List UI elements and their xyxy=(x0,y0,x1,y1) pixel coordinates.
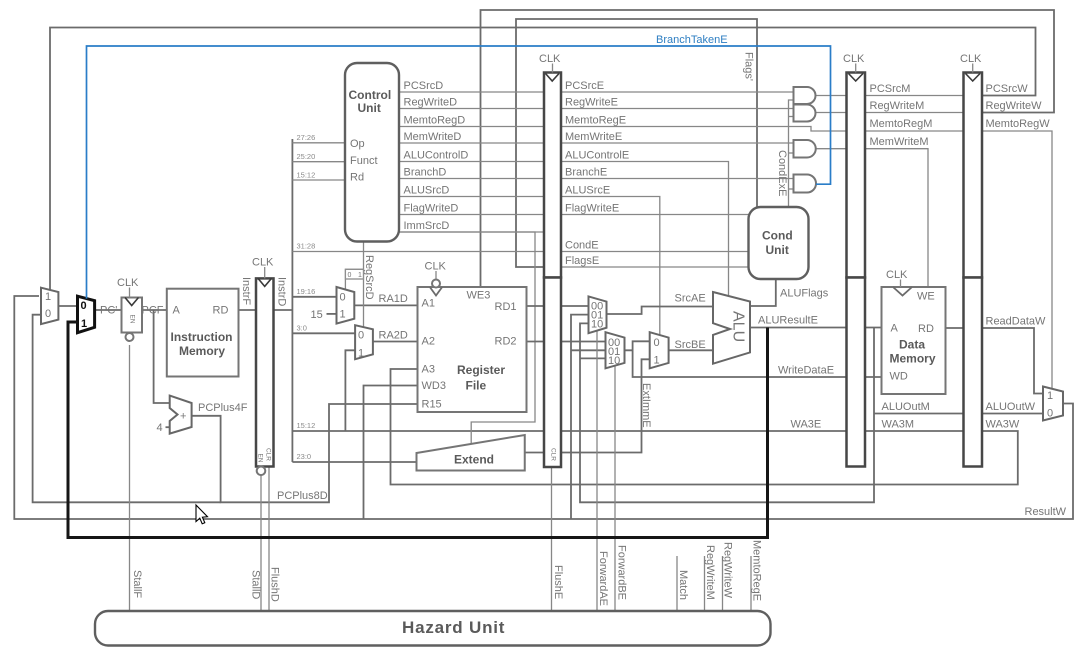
wire tap 15:12 WA3E row to E register xyxy=(292,430,544,432)
wire FlushE to E register CLR xyxy=(551,467,553,611)
svg-text:MemtoRegD: MemtoRegD xyxy=(404,115,466,127)
tap box RegSrcD 0 1 xyxy=(345,269,363,279)
wire RegWriteM row M to W xyxy=(865,112,964,114)
svg-text:R15: R15 xyxy=(422,399,442,411)
svg-text:SrcAE: SrcAE xyxy=(675,293,706,305)
wire ResultW forwarding branch to SrcB mux 01 xyxy=(571,349,606,351)
svg-text:MemtoRegW: MemtoRegW xyxy=(986,118,1051,130)
svg-text:Unit: Unit xyxy=(766,243,789,257)
wire ALUControlD row xyxy=(399,161,544,163)
wire tap 23:0 to Extend xyxy=(292,461,416,463)
adder PCPlus4F xyxy=(170,396,192,434)
AND gate 3 MemWrite xyxy=(794,140,816,158)
wire MemWriteM row from AND gate 3 xyxy=(816,148,847,150)
wire RA2D mux output to Register File A2 xyxy=(373,341,418,343)
wire RegSrcD tap box to RA1D mux select xyxy=(345,269,363,289)
wire PCPlus8D and PC mux 0 loop xyxy=(192,404,418,502)
svg-text:25:20: 25:20 xyxy=(297,152,316,161)
svg-text:WE: WE xyxy=(917,291,935,303)
wire ResultW loop bottom xyxy=(14,296,1073,519)
svg-text:PCSrcD: PCSrcD xyxy=(404,80,444,92)
svg-text:Hazard Unit: Hazard Unit xyxy=(402,618,505,637)
box Data Memory xyxy=(882,287,946,394)
svg-text:Funct: Funct xyxy=(350,155,378,167)
wire WriteDataE branch down xyxy=(633,350,847,377)
svg-text:1: 1 xyxy=(340,308,346,320)
wire ALUSrcD row xyxy=(399,196,544,198)
svg-text:ALUControlD: ALUControlD xyxy=(404,150,469,162)
register M (execute/memory) upper xyxy=(847,73,866,278)
wire tap 31:28 CondD to E register xyxy=(292,251,544,253)
wire PC mux input 0 from PCPlus4F xyxy=(33,315,221,503)
AND gate 2 RegWrite xyxy=(794,105,816,122)
wire ALUOutM forwarding branch to SrcB mux 10 xyxy=(580,357,606,359)
svg-text:3:0: 3:0 xyxy=(297,324,307,333)
wire MemWriteM row to Data Memory WE xyxy=(865,149,928,287)
mux result (1/0) xyxy=(1043,387,1063,421)
svg-text:MemtoRegM: MemtoRegM xyxy=(870,118,933,130)
wire CondE row to Cond Unit xyxy=(561,251,749,253)
register D (InstrF to InstrD, with EN CLR) xyxy=(256,278,274,466)
svg-text:ALUControlE: ALUControlE xyxy=(565,150,629,162)
wire ResultW to WD3 xyxy=(364,386,418,520)
svg-text:19:16: 19:16 xyxy=(297,287,316,296)
wire ImmSrcD row into E register xyxy=(399,231,544,233)
wire FlagWriteD row xyxy=(399,214,544,216)
svg-text:WE3: WE3 xyxy=(467,290,491,302)
wire InstrD from D register to bus xyxy=(274,309,293,311)
wire StallD to D register EN xyxy=(260,476,262,612)
wire FlushD to D register CLR xyxy=(268,467,270,612)
svg-text:Match: Match xyxy=(677,570,689,600)
svg-text:ForwardAE: ForwardAE xyxy=(597,551,609,606)
wire WA3M row M to W xyxy=(865,430,964,432)
wire RegWriteM row from AND gate 2 xyxy=(816,112,847,114)
svg-text:23:0: 23:0 xyxy=(297,452,312,461)
wire RA2D mux input 1 from 15:12 xyxy=(345,350,355,431)
svg-text:RegSrcD: RegSrcD xyxy=(363,255,375,300)
svg-text:1: 1 xyxy=(81,318,87,330)
svg-text:0: 0 xyxy=(654,337,660,349)
wire PCSrcD row xyxy=(399,91,544,93)
wire black mux input 1 from ALUResultE black path xyxy=(68,322,768,538)
mux branch (black bold, 0/1) xyxy=(78,296,95,333)
wire MemtoRegW row to result mux select xyxy=(982,131,1052,389)
register E lower xyxy=(544,278,561,468)
wire ALUOutM forwarding rail xyxy=(580,323,874,502)
wire MemtoRegD row xyxy=(399,126,544,128)
AND gate 1 PCSrc xyxy=(794,87,816,104)
wire RegWriteD row xyxy=(399,108,544,110)
wire FlagWriteE row to Cond Unit xyxy=(561,214,749,216)
svg-text:27:26: 27:26 xyxy=(297,133,316,142)
svg-text:15:12: 15:12 xyxy=(297,421,316,430)
svg-text:0: 0 xyxy=(348,272,352,279)
wire RD2 from Register File through E register xyxy=(527,341,606,343)
svg-text:10: 10 xyxy=(591,319,603,331)
svg-text:WA3W: WA3W xyxy=(986,419,1020,431)
svg-text:FlushE: FlushE xyxy=(552,565,564,599)
svg-text:0: 0 xyxy=(340,291,346,303)
svg-text:0: 0 xyxy=(45,308,51,320)
box Instruction Memory xyxy=(167,289,239,377)
wire BranchTakenE blue loop xyxy=(87,46,831,299)
wire RA1D mux output to Register File A1 xyxy=(354,304,417,306)
svg-text:CondE: CondE xyxy=(565,240,599,252)
svg-text:PCPlus4F: PCPlus4F xyxy=(198,402,248,414)
wire MemtoRegE stub to Hazard Unit xyxy=(750,556,752,611)
clock bubble PC register xyxy=(126,333,134,341)
svg-text:RD: RD xyxy=(213,305,229,317)
wire RD1 from Register File through E register xyxy=(527,305,589,307)
svg-text:EN: EN xyxy=(257,454,264,463)
wire SrcBE mux output to ALU xyxy=(669,349,713,351)
svg-text:ALUResultE: ALUResultE xyxy=(758,315,818,327)
wire ALUResultM to Data Memory A xyxy=(865,327,882,329)
svg-text:BranchTakenE: BranchTakenE xyxy=(656,34,728,46)
svg-text:FlagWriteD: FlagWriteD xyxy=(404,203,459,215)
wire gray mux output to black mux input 0 xyxy=(58,305,77,307)
wire tap 27:26 to Control Unit Op xyxy=(292,142,345,144)
mux RA1D (0/1) xyxy=(337,287,355,324)
svg-text:WD: WD xyxy=(890,371,908,383)
svg-text:RegWriteM: RegWriteM xyxy=(870,100,925,112)
wire FlagsE row to Cond Unit xyxy=(561,266,749,268)
svg-text:0: 0 xyxy=(1047,408,1053,420)
wire MemtoRegE row with jog to M register xyxy=(561,127,847,132)
wire tap 3:0 to RA2D mux 0 xyxy=(292,332,355,334)
wire RegWriteW feedback loop top xyxy=(481,10,1055,287)
svg-text:PCF: PCF xyxy=(142,305,164,317)
svg-text:Data: Data xyxy=(899,338,925,352)
wire ForwardBE to SrcB mux select xyxy=(614,367,616,612)
svg-text:MemWriteD: MemWriteD xyxy=(404,131,462,143)
svg-text:Flags': Flags' xyxy=(743,52,755,81)
wire WA3E row through M register xyxy=(561,430,847,432)
svg-text:RegWriteE: RegWriteE xyxy=(565,97,618,109)
svg-text:A: A xyxy=(891,323,899,335)
ALU xyxy=(713,292,750,364)
svg-text:PCPlus8D: PCPlus8D xyxy=(277,490,328,502)
svg-text:PCSrcM: PCSrcM xyxy=(870,83,911,95)
svg-text:CLK: CLK xyxy=(539,53,561,65)
wire RegSrcD tap box bottom xyxy=(345,278,363,280)
svg-text:Rd: Rd xyxy=(350,172,364,184)
svg-text:Register: Register xyxy=(457,363,505,377)
wire MemWriteD row xyxy=(399,142,544,144)
svg-text:ALUSrcE: ALUSrcE xyxy=(565,185,610,197)
svg-text:StallF: StallF xyxy=(131,570,143,598)
wire ALUSrcE row down to SrcBE mux select xyxy=(561,197,660,335)
unit Control Unit xyxy=(345,63,399,242)
svg-text:ALU: ALU xyxy=(730,311,747,342)
wire SrcAE from forwarding mux to ALU xyxy=(607,307,714,315)
wire ALUFlags from ALU to Cond Unit xyxy=(750,279,776,306)
wire PC' from black mux to PC register xyxy=(95,309,122,311)
svg-text:RegWriteD: RegWriteD xyxy=(404,97,458,109)
svg-text:PCSrcW: PCSrcW xyxy=(986,83,1029,95)
svg-text:StallD: StallD xyxy=(250,570,262,599)
box Register File xyxy=(418,287,527,412)
svg-text:15: 15 xyxy=(311,309,323,321)
wire Match stub to Hazard Unit xyxy=(676,556,678,611)
svg-text:MemtoRegE: MemtoRegE xyxy=(751,540,763,601)
wire RD from Instruction Memory to D register xyxy=(239,309,257,311)
svg-text:Unit: Unit xyxy=(358,101,381,115)
register W lower xyxy=(964,278,983,467)
svg-text:FlagWriteE: FlagWriteE xyxy=(565,203,619,215)
AND gate 4 BranchTaken xyxy=(794,175,817,193)
mouse cursor xyxy=(196,505,208,524)
register PC (with EN) xyxy=(122,298,143,333)
wire tap 25:20 to Control Unit Funct xyxy=(292,161,345,163)
svg-text:4: 4 xyxy=(157,422,163,434)
wire CondExE rail from Cond Unit to AND gates xyxy=(789,100,794,207)
wire constant 15 to RA1D mux 1 xyxy=(327,313,337,315)
svg-text:RD: RD xyxy=(918,323,934,335)
wire ImmSrcD to Extend select xyxy=(399,232,535,444)
wire SrcB mux output to SrcBE mux 0 and WriteDataE xyxy=(625,341,650,350)
svg-text:File: File xyxy=(466,379,487,393)
svg-text:BranchE: BranchE xyxy=(565,167,607,179)
wire WriteDataM to Data Memory WD xyxy=(865,376,882,378)
wire CondExE stub to AND gate 4 xyxy=(789,188,794,190)
mux PC source (gray, 1/0) xyxy=(41,288,58,324)
svg-text:Memory: Memory xyxy=(890,352,936,366)
svg-text:MemWriteM: MemWriteM xyxy=(870,136,929,148)
svg-text:BranchD: BranchD xyxy=(404,167,447,179)
svg-text:A3: A3 xyxy=(422,364,435,376)
unit Cond Unit xyxy=(749,207,809,279)
svg-text:RD1: RD1 xyxy=(495,301,517,313)
svg-text:ResultW: ResultW xyxy=(1025,506,1067,518)
wire ReadDataW from Data Memory to result mux 1 xyxy=(946,328,1044,394)
clock bubble D register xyxy=(257,467,266,476)
svg-text:EN: EN xyxy=(129,315,136,324)
register W (memory/writeback) upper xyxy=(964,73,983,278)
svg-text:RegWriteW: RegWriteW xyxy=(722,542,734,599)
svg-text:Cond: Cond xyxy=(762,229,793,243)
svg-text:Instruction: Instruction xyxy=(171,330,233,344)
wire InstrD vertical bus xyxy=(291,139,293,462)
wire Extend output to E register xyxy=(525,452,544,454)
svg-text:CLK: CLK xyxy=(886,269,908,281)
svg-text:CLR: CLR xyxy=(550,448,557,461)
svg-text:1: 1 xyxy=(45,291,51,303)
wire constant 4 into adder xyxy=(166,426,172,428)
svg-text:ALUSrcD: ALUSrcD xyxy=(404,185,450,197)
wire PCF branch down to PCPlus4F adder xyxy=(154,310,170,403)
mux SrcBE (0/1) xyxy=(650,332,669,368)
wire StallF from Hazard Unit to PC register xyxy=(129,345,131,611)
wire ALUOutM row to result mux 0 xyxy=(874,413,1043,415)
svg-text:MemWriteE: MemWriteE xyxy=(565,131,622,143)
svg-text:ImmSrcD: ImmSrcD xyxy=(404,220,450,232)
wire PCSrcM row M to W xyxy=(865,95,964,97)
wire BranchD row xyxy=(399,178,544,180)
svg-text:FlagsE: FlagsE xyxy=(565,255,599,267)
wire ForwardAE to SrcA mux select xyxy=(596,331,598,611)
svg-text:31:28: 31:28 xyxy=(297,242,316,251)
svg-text:1: 1 xyxy=(358,272,362,279)
svg-text:A1: A1 xyxy=(422,298,435,310)
wire PCSrcE row to AND gate xyxy=(561,91,794,93)
svg-text:RA1D: RA1D xyxy=(379,293,408,305)
wire WA3W loop to Register File A3 xyxy=(391,369,1018,485)
svg-text:+: + xyxy=(180,411,186,423)
wire Flags' loop from Cond Unit to E register xyxy=(516,19,757,267)
svg-text:1: 1 xyxy=(1047,390,1053,402)
register E (decode/execute) upper xyxy=(544,73,561,278)
unit Hazard Unit xyxy=(95,611,771,646)
register M lower xyxy=(847,278,866,467)
wire ALUControlE row down to ALU xyxy=(561,162,729,297)
svg-text:CLK: CLK xyxy=(425,261,447,273)
wire PCF from PC register to Instruction Memory xyxy=(142,309,167,311)
wire ExtImmE from E register to SrcBE mux 1 xyxy=(561,359,650,452)
svg-text:ForwardBE: ForwardBE xyxy=(616,545,628,600)
svg-text:Memory: Memory xyxy=(179,344,225,358)
svg-text:PC': PC' xyxy=(100,305,117,317)
svg-text:ALUOutM: ALUOutM xyxy=(882,401,930,413)
mux SrcA forwarding (00/01/10) xyxy=(589,296,607,333)
svg-text:1: 1 xyxy=(358,347,364,359)
svg-text:RD2: RD2 xyxy=(495,336,517,348)
svg-text:InstrD: InstrD xyxy=(276,277,288,306)
svg-text:RegWriteW: RegWriteW xyxy=(986,100,1043,112)
svg-text:CLK: CLK xyxy=(117,277,139,289)
svg-text:1: 1 xyxy=(654,354,660,366)
wire PCSrcW feedback loop to PC mux select xyxy=(50,28,1036,293)
wire tap 15:12 to Control Unit Rd xyxy=(292,179,345,181)
svg-text:Extend: Extend xyxy=(454,453,494,467)
svg-text:WA3E: WA3E xyxy=(791,419,822,431)
svg-text:WA3M: WA3M xyxy=(882,419,915,431)
wire RegWriteE row to AND gate xyxy=(561,108,794,110)
wire PCSrcM row from AND gate 1 xyxy=(816,95,847,97)
svg-text:ALUOutW: ALUOutW xyxy=(986,401,1036,413)
wire BranchE row to AND gate xyxy=(561,178,794,180)
wire RegWriteW stub to Hazard Unit xyxy=(722,556,724,611)
svg-text:SrcBE: SrcBE xyxy=(675,339,706,351)
wire CondExE stub to AND gate 3 xyxy=(789,152,794,154)
svg-text:A: A xyxy=(173,305,181,317)
svg-text:ALUFlags: ALUFlags xyxy=(780,288,829,300)
svg-text:0: 0 xyxy=(81,300,87,312)
svg-text:Control: Control xyxy=(349,88,392,102)
wire ResultW forwarding vertical to SrcA/SrcB muxes xyxy=(571,315,589,519)
svg-text:ReadDataW: ReadDataW xyxy=(986,316,1047,328)
svg-text:A2: A2 xyxy=(422,336,435,348)
svg-text:PCSrcE: PCSrcE xyxy=(565,80,604,92)
wire ALUResultE from ALU to M register xyxy=(750,327,847,329)
svg-text:WriteDataE: WriteDataE xyxy=(778,365,834,377)
wire CondExE stub to AND gate 2 xyxy=(789,116,794,118)
box Extend xyxy=(417,435,525,471)
svg-text:FlushD: FlushD xyxy=(269,567,281,602)
wire RegWriteM stub to Hazard Unit xyxy=(704,556,706,611)
svg-text:InstrF: InstrF xyxy=(240,277,252,305)
wire RegSrcD from Control Unit bottom xyxy=(363,242,365,328)
svg-text:MemtoRegE: MemtoRegE xyxy=(565,115,626,127)
wire tap 19:16 to RA1D mux 0 xyxy=(292,296,336,298)
svg-text:10: 10 xyxy=(608,355,620,367)
mux SrcB forwarding (00/01/10) xyxy=(606,332,625,368)
svg-text:Op: Op xyxy=(350,138,365,150)
svg-text:CLK: CLK xyxy=(843,53,865,65)
svg-text:CLR: CLR xyxy=(265,448,272,461)
wire MemWriteE row to AND gate xyxy=(561,142,794,144)
wire MemtoRegM row M to W xyxy=(865,130,964,132)
svg-text:RA2D: RA2D xyxy=(379,330,408,342)
svg-text:0: 0 xyxy=(358,329,364,341)
svg-text:WD3: WD3 xyxy=(422,380,446,392)
svg-text:CLK: CLK xyxy=(960,53,982,65)
svg-text:CLK: CLK xyxy=(252,257,274,269)
svg-text:RegWriteM: RegWriteM xyxy=(704,545,716,600)
mux RA2D (0/1) xyxy=(355,325,373,359)
svg-text:ExtImmE: ExtImmE xyxy=(640,383,652,428)
svg-text:15:12: 15:12 xyxy=(297,171,316,180)
svg-text:CondExE: CondExE xyxy=(776,150,788,196)
